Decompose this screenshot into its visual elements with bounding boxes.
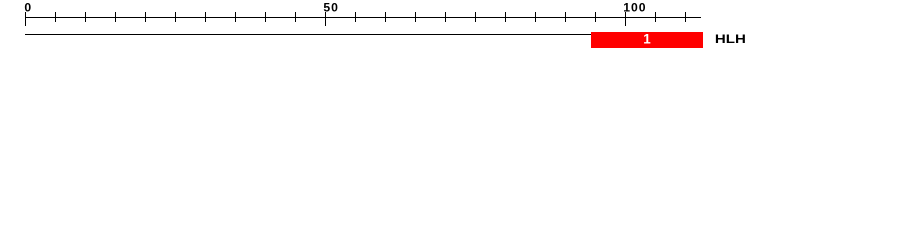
svg-text:HLH: HLH bbox=[715, 32, 746, 45]
svg-text:100: 100 bbox=[623, 0, 646, 14]
ruler major tick 0 bbox=[25, 12, 26, 26]
ruler axis line bbox=[25, 17, 701, 18]
svg-text:1: 1 bbox=[643, 31, 651, 46]
domain box HLH (red) bbox=[591, 32, 703, 48]
ruler major tick 100 bbox=[625, 12, 626, 26]
protein backbone line bbox=[25, 34, 701, 35]
ruler major tick 50 bbox=[325, 12, 326, 26]
ruler minor ticks bbox=[55, 12, 686, 22]
